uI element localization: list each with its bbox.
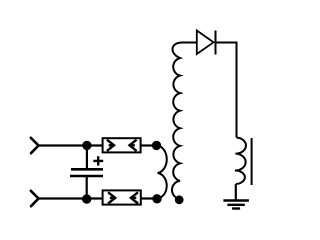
surge arrester A2 box (bottom) bbox=[103, 190, 141, 204]
node dot bottom-left junction bbox=[83, 195, 91, 203]
wire bottom input to box bbox=[39, 197, 104, 199]
node dot transformer primary bottom bbox=[153, 195, 161, 203]
wire capacitor bottom lead bbox=[86, 176, 88, 199]
ground symbol bar 2 bbox=[227, 204, 244, 206]
diode D1 cathode bar bbox=[215, 31, 217, 55]
node dot top-left junction bbox=[83, 141, 91, 149]
capacitor C1 top plate bbox=[71, 168, 103, 171]
ground symbol bar 3 bbox=[232, 207, 240, 209]
capacitor C1 plus sign bbox=[93, 156, 103, 165]
ground symbol bar 1 bbox=[223, 199, 249, 201]
surge arrester A2 right arrow bbox=[131, 192, 139, 203]
surge arrester A1 box (top) bbox=[103, 138, 141, 152]
wire inductor to ground bbox=[235, 184, 237, 200]
input terminal J1 (top) bbox=[31, 138, 39, 153]
inductor L1 core bar bbox=[251, 138, 253, 185]
wire bottom box to transformer bbox=[141, 197, 157, 199]
capacitor C1 bottom plate bbox=[70, 175, 103, 178]
input terminal J2 (bottom) bbox=[31, 191, 39, 206]
wire top box to transformer bbox=[141, 144, 157, 146]
wire secondary top to diode bbox=[182, 42, 197, 44]
wire diode to right branch bbox=[216, 43, 237, 138]
diode D1 triangle bbox=[197, 31, 214, 55]
wire top input to box bbox=[39, 144, 104, 146]
node dot transformer primary top bbox=[152, 141, 160, 149]
node dot secondary bottom terminal bbox=[175, 196, 183, 204]
surge arrester A1 left arrow bbox=[107, 140, 115, 151]
surge arrester A1 right arrow bbox=[129, 140, 137, 151]
surge arrester A2 left arrow bbox=[108, 192, 116, 203]
inductor L1 winding bbox=[235, 138, 246, 185]
transformer T1 primary winding bbox=[157, 146, 167, 199]
wire capacitor top lead bbox=[86, 145, 88, 168]
transformer T1 secondary winding bbox=[172, 43, 182, 199]
